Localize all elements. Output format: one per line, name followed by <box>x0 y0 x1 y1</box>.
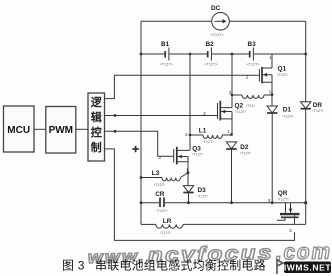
svg-text:IWMS.NET: IWMS.NET <box>284 263 332 273</box>
watermark <box>88 238 332 268</box>
svg-text:QR: QR <box>278 190 288 197</box>
node : battery row junctions <box>140 53 308 56</box>
svg-text:1: 1 <box>228 129 231 134</box>
inductor LR <box>156 218 306 235</box>
svg-text:3: 3 <box>289 228 292 233</box>
svg-text:B1: B1 <box>161 41 170 48</box>
svg-text:PWM: PWM <box>49 125 73 136</box>
svg-text:Q2: Q2 <box>235 103 244 110</box>
svg-text:‹T12T›: ‹T12T› <box>312 109 324 113</box>
DC source <box>211 5 230 37</box>
svg-text:辑: 辑 <box>91 110 102 124</box>
wire : top rail right segment <box>229 20 305 22</box>
svg-text:‹T12T›: ‹T12T› <box>154 183 166 187</box>
transistor Q3 <box>174 145 204 164</box>
wire : PWM to logic box <box>76 128 88 130</box>
node CR at left bus <box>140 201 143 204</box>
svg-text:‹T12T›: ‹T12T› <box>235 110 247 114</box>
svg-text:D1: D1 <box>283 107 292 114</box>
svg-text:L1: L1 <box>199 127 207 134</box>
wire : logic out2 to Q2 gate <box>105 115 218 117</box>
svg-text:Q1: Q1 <box>278 66 287 73</box>
diode D1 <box>267 95 294 203</box>
svg-text:3: 3 <box>268 198 271 203</box>
svg-text:‹T12›: ‹T12› <box>246 104 256 108</box>
plus polarity mark <box>132 146 138 152</box>
svg-text:Q3: Q3 <box>192 145 201 152</box>
svg-text:‹T12T›: ‹T12T› <box>156 209 168 213</box>
wire : Q2 drain up / source down <box>231 54 233 135</box>
node Q2 source / L1 / D2 <box>230 133 233 136</box>
transistor Q2 <box>218 101 256 121</box>
svg-text:‹T12T›: ‹T12T› <box>202 140 214 144</box>
wire : Q3 source down <box>187 157 189 173</box>
svg-text:‹T12T›: ‹T12T› <box>197 195 209 199</box>
svg-text:‹T12T›: ‹T12T› <box>282 114 294 118</box>
node at coil to Q1 source <box>271 93 274 96</box>
svg-text:LR: LR <box>163 218 172 225</box>
svg-text:控: 控 <box>91 125 102 139</box>
wire : Q1 drain up / source down <box>271 54 273 95</box>
wire : MCU to PWM <box>34 128 46 130</box>
wire : right bus vertical top <box>305 21 307 102</box>
svg-text:DC: DC <box>211 5 221 12</box>
inductor L2 coil on Q2 drain row <box>232 95 272 98</box>
svg-text:‹T12T›: ‹T12T› <box>192 153 204 157</box>
diode D3 <box>183 173 209 203</box>
inductor L3 <box>141 170 188 187</box>
svg-text:D2: D2 <box>240 144 249 151</box>
inductor L1 <box>190 127 232 144</box>
wire : return row to right bus <box>189 202 306 204</box>
wire : LR row <box>141 223 156 225</box>
svg-text:D3: D3 <box>198 187 207 194</box>
node L3 at left bus <box>140 176 143 179</box>
wire : logic out4 down to bottom rail and QR gate <box>105 149 295 241</box>
node on out3 <box>114 130 117 133</box>
diode D2 <box>226 142 252 203</box>
wire : logic out3 to Q3 gate <box>105 131 174 156</box>
svg-text:‹T12T›: ‹T12T› <box>160 231 172 235</box>
capacitor CR <box>141 191 189 213</box>
transistor Q1 <box>259 66 289 84</box>
node L1 corner <box>189 134 192 137</box>
svg-text:.com: .com <box>276 238 332 264</box>
svg-text:MCU: MCU <box>7 125 30 136</box>
wire : left bus vertical <box>140 21 142 224</box>
diode DR <box>301 102 325 203</box>
nodes on return row <box>187 201 307 204</box>
svg-text:L3: L3 <box>152 170 160 177</box>
wire : battery row <box>141 53 306 55</box>
transistor QR (horizontal) <box>277 190 300 224</box>
battery B2 <box>205 41 218 67</box>
svg-text:逻: 逻 <box>91 95 103 109</box>
svg-text:‹T12T›: ‹T12T› <box>277 73 289 77</box>
svg-text:2: 2 <box>185 132 188 137</box>
node on out2 <box>114 114 117 117</box>
svg-text:B3: B3 <box>248 41 257 48</box>
wire : logic out1 to Q1 gate <box>105 75 260 98</box>
svg-text:«T12T»: «T12T» <box>160 63 173 67</box>
node Q3 source junction <box>187 171 190 174</box>
svg-text:‹T12T›: ‹T12T› <box>240 152 252 156</box>
svg-text:‹T12T›: ‹T12T› <box>277 198 289 202</box>
svg-text:«T12T»: «T12T» <box>247 63 260 67</box>
svg-text:2: 2 <box>159 155 162 160</box>
svg-text:«T12T»: «T12T» <box>211 33 224 37</box>
battery B3 <box>247 41 260 67</box>
badge IWMS.NET <box>284 262 332 274</box>
wire : top rail left segment <box>141 20 212 22</box>
svg-text:CR: CR <box>155 191 165 198</box>
PWM box U2 <box>46 107 76 154</box>
wire : right bus down to LR row <box>305 203 307 225</box>
MCU box U1 <box>4 106 35 152</box>
wire : Q3 drain vertical from battery row <box>189 54 191 150</box>
svg-text:B2: B2 <box>206 41 215 48</box>
logic control box U3 <box>88 93 105 161</box>
battery B1 <box>160 41 173 67</box>
node at Q2 drain corner <box>231 94 234 97</box>
badge icon <box>277 260 283 274</box>
svg-text:«T12T»: «T12T» <box>205 63 218 67</box>
svg-text:制: 制 <box>91 140 102 154</box>
svg-text:DR: DR <box>313 102 323 109</box>
